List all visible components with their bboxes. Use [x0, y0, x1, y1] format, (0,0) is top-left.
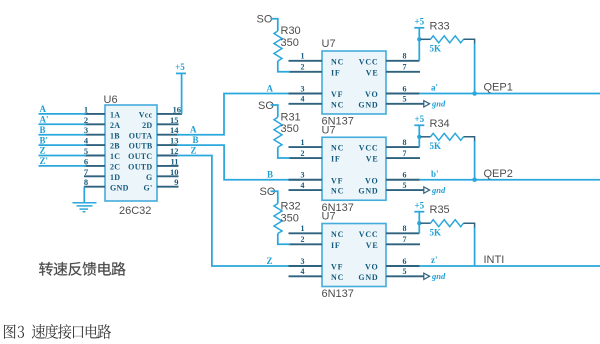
svg-text:1: 1 — [84, 104, 88, 114]
svg-text:2A: 2A — [110, 121, 120, 130]
svg-text:3: 3 — [84, 125, 88, 135]
junction dot QEP2 — [472, 177, 477, 182]
svg-text:QEP2: QEP2 — [484, 168, 513, 180]
svg-text:NC: NC — [331, 100, 344, 109]
U7a pin 8 stub — [386, 52, 419, 61]
svg-text:NC: NC — [331, 187, 344, 196]
svg-text:U7: U7 — [322, 211, 336, 223]
svg-text:INTI: INTI — [484, 254, 505, 266]
U6 pin 13 stub — [157, 136, 179, 146]
svg-text:10: 10 — [170, 167, 179, 177]
U7c reference label — [322, 211, 336, 223]
U6 pin 5 stub — [84, 146, 105, 156]
svg-text:IF: IF — [331, 155, 341, 164]
svg-text:B: B — [267, 170, 273, 180]
wire R35 to output line — [474, 227, 476, 266]
svg-text:VF: VF — [331, 263, 343, 272]
U7b reference label — [322, 124, 336, 136]
svg-text:Vcc: Vcc — [139, 111, 153, 120]
svg-text:2C: 2C — [110, 163, 120, 172]
svg-text:VF: VF — [331, 90, 343, 99]
svg-text:5: 5 — [403, 267, 407, 276]
svg-text:NC: NC — [331, 230, 344, 239]
svg-text:1A: 1A — [110, 111, 120, 120]
svg-text:U7: U7 — [322, 38, 336, 50]
svg-text:1: 1 — [301, 52, 305, 61]
U6 +5 supply — [175, 62, 186, 114]
svg-text:U7: U7 — [322, 124, 336, 136]
U7c pin 4 stub — [289, 267, 323, 276]
U7a reference label — [322, 38, 336, 50]
junction dot QEP1 — [472, 91, 477, 96]
svg-text:B: B — [193, 135, 199, 145]
+5 supply (R33) — [414, 17, 424, 40]
resistor R34 5K — [421, 118, 475, 151]
U6 pin 10 stub — [157, 167, 179, 177]
svg-text:6: 6 — [403, 257, 407, 266]
wire +5 node to U7a pin8 — [418, 39, 420, 61]
U6 pin 1 stub — [84, 104, 105, 114]
svg-text:3: 3 — [301, 171, 305, 180]
U6 pin 2 stub — [84, 115, 105, 125]
svg-text:B': B' — [40, 135, 49, 145]
svg-text:A: A — [40, 104, 47, 114]
svg-text:NC: NC — [331, 144, 344, 153]
U7c pin 8 stub — [386, 224, 419, 233]
svg-text:6: 6 — [84, 156, 88, 166]
svg-text:Z: Z — [191, 146, 197, 156]
svg-text:11: 11 — [170, 156, 178, 166]
svg-text:VE: VE — [366, 241, 379, 250]
svg-text:G: G — [146, 173, 153, 182]
gnd port U7b pin5 — [424, 185, 446, 195]
node SO (R32) — [260, 186, 278, 204]
svg-text:OUTA: OUTA — [129, 131, 153, 140]
U6 value 26C32 — [119, 205, 151, 217]
U6 pin 11 stub — [157, 156, 179, 166]
U7a pin 6 stub — [386, 84, 420, 93]
wire +5 node to U7c pin8 — [418, 223, 420, 233]
wire R33 to output line — [474, 43, 476, 93]
svg-text:A': A' — [40, 115, 49, 125]
U7c pin 3 stub — [289, 257, 323, 266]
U6 reference label — [104, 94, 118, 106]
svg-text:VO: VO — [365, 90, 378, 99]
svg-text:6N137: 6N137 — [322, 288, 354, 300]
svg-text:1D: 1D — [110, 173, 120, 182]
IC U6 26C32 body — [105, 105, 157, 201]
svg-text:2B: 2B — [110, 142, 120, 151]
svg-text:8: 8 — [84, 177, 88, 187]
svg-text:5K: 5K — [430, 141, 442, 151]
svg-text:A: A — [267, 83, 274, 93]
gnd port U7a pin5 — [424, 99, 446, 109]
svg-text:5: 5 — [84, 146, 88, 156]
svg-text:13: 13 — [170, 136, 179, 146]
node SO (R31) — [258, 100, 278, 118]
svg-text:VF: VF — [331, 176, 343, 185]
U7b value 6N137 — [322, 202, 354, 214]
svg-text:1: 1 — [301, 138, 305, 147]
U7c value 6N137 — [322, 288, 354, 300]
U6 pin 15 stub — [157, 115, 179, 125]
U7b pin 5 stub — [386, 181, 424, 190]
U6 pin 7 stub — [84, 167, 105, 177]
svg-text:R33: R33 — [430, 20, 450, 32]
svg-text:4: 4 — [84, 136, 89, 146]
U7a pin 4 stub — [289, 95, 323, 104]
input wire B — [39, 125, 87, 135]
U7b pin 2 stub — [289, 149, 323, 158]
U7c pin 1 stub — [289, 224, 323, 233]
U6 pin 3 stub — [84, 125, 105, 135]
output line INTI — [419, 254, 600, 266]
svg-text:8: 8 — [403, 138, 407, 147]
svg-text:OUTB: OUTB — [129, 142, 153, 151]
svg-text:R31: R31 — [281, 111, 301, 123]
svg-text:350: 350 — [281, 37, 299, 49]
svg-text:gnd: gnd — [431, 99, 446, 109]
node SO (R30) — [257, 14, 278, 32]
U6 pin 12 stub — [157, 146, 179, 156]
optocoupler U7a 6N137 body — [322, 51, 386, 114]
svg-text:8: 8 — [403, 52, 407, 61]
U7c pin 6 stub — [386, 257, 420, 266]
svg-text:Z': Z' — [40, 156, 49, 166]
svg-text:B: B — [40, 125, 46, 135]
U7a value 6N137 — [322, 116, 354, 128]
wire B from U6 pin13 to U7b pin3 — [177, 135, 300, 180]
svg-text:a': a' — [431, 83, 438, 93]
svg-text:2D: 2D — [142, 121, 152, 130]
svg-text:7: 7 — [84, 167, 89, 177]
wire +5 node to U7b pin8 — [418, 137, 420, 147]
svg-text:350: 350 — [281, 212, 299, 224]
svg-text:VE: VE — [366, 155, 379, 164]
svg-text:7: 7 — [403, 149, 407, 158]
input wire A' — [39, 115, 87, 125]
svg-text:+5: +5 — [175, 62, 185, 72]
svg-text:7: 7 — [403, 63, 407, 72]
U6 pin 6 stub — [84, 156, 105, 166]
svg-text:NC: NC — [331, 57, 344, 66]
resistor R30 350 — [274, 25, 301, 72]
svg-text:OUTC: OUTC — [128, 152, 152, 161]
svg-text:GND: GND — [358, 187, 378, 196]
U7a pin 5 stub — [386, 95, 424, 104]
svg-text:5K: 5K — [430, 228, 442, 238]
svg-text:4: 4 — [301, 95, 305, 104]
svg-text:15: 15 — [170, 115, 179, 125]
svg-text:26C32: 26C32 — [119, 205, 151, 217]
svg-text:R34: R34 — [430, 118, 450, 130]
U6 pin 9 stub — [157, 177, 179, 187]
svg-text:R35: R35 — [430, 204, 450, 216]
svg-text:A: A — [190, 125, 197, 135]
U7b pin 3 stub — [289, 171, 323, 180]
U7b pin 7 stub — [386, 149, 420, 158]
svg-text:Z: Z — [267, 256, 273, 266]
svg-text:3: 3 — [301, 257, 305, 266]
junction dot R33 top — [417, 37, 421, 41]
resistor R33 5K — [421, 20, 475, 53]
svg-text:gnd: gnd — [431, 271, 446, 281]
svg-text:1B: 1B — [110, 131, 120, 140]
input wire Z' — [39, 156, 87, 166]
svg-text:OUTD: OUTD — [128, 163, 152, 172]
U6 pin 16 stub — [157, 104, 182, 114]
svg-text:GND: GND — [358, 273, 378, 282]
svg-text:b': b' — [431, 169, 439, 179]
input wire Z — [39, 146, 87, 156]
resistor R35 5K — [421, 204, 475, 237]
svg-text:IF: IF — [331, 68, 341, 77]
input wire B' — [39, 135, 87, 145]
junction dot R35 top — [417, 221, 421, 225]
wire A from U6 pin14 to U7a pin3 — [177, 83, 300, 134]
svg-text:5: 5 — [403, 95, 407, 104]
svg-text:R32: R32 — [281, 201, 301, 213]
input wire A — [39, 104, 87, 114]
U7a pin 1 stub — [289, 52, 323, 61]
text speed feedback circuit — [39, 262, 125, 276]
output line QEP2 — [419, 168, 600, 180]
svg-text:NC: NC — [331, 273, 344, 282]
svg-text:+5: +5 — [414, 114, 424, 124]
svg-text:VO: VO — [365, 263, 378, 272]
optocoupler U7b 6N137 body — [322, 137, 386, 200]
U7a pin 2 stub — [289, 63, 323, 72]
svg-text:+5: +5 — [414, 201, 424, 211]
resistor R31 350 — [274, 111, 301, 158]
svg-text:4: 4 — [301, 181, 305, 190]
U7b pin 6 stub — [386, 171, 420, 180]
U6 pin 14 stub — [157, 125, 179, 135]
svg-text:Z: Z — [40, 146, 46, 156]
U7c pin 7 stub — [386, 235, 420, 244]
svg-text:2: 2 — [301, 63, 305, 72]
+5 supply (R34) — [414, 114, 424, 137]
svg-text:+5: +5 — [414, 17, 424, 27]
gnd port U7c pin5 — [424, 271, 446, 281]
output line QEP1 — [419, 82, 600, 94]
svg-text:R30: R30 — [281, 25, 301, 37]
svg-text:VO: VO — [365, 176, 378, 185]
U7c pin 2 stub — [289, 235, 323, 244]
svg-text:gnd: gnd — [431, 185, 446, 195]
svg-text:2: 2 — [301, 235, 305, 244]
optocoupler U7c 6N137 body — [322, 224, 386, 287]
U7b pin 4 stub — [289, 181, 323, 190]
U7a pin 7 stub — [386, 63, 420, 72]
U7c pin 5 stub — [386, 267, 424, 276]
svg-text:6: 6 — [403, 171, 407, 180]
svg-text:12: 12 — [170, 146, 179, 156]
U6 pin 4 stub — [84, 136, 105, 146]
svg-text:8: 8 — [403, 224, 407, 233]
U7a pin 3 stub — [289, 84, 323, 93]
U6 pin 8 stub — [84, 177, 105, 187]
+5 supply (R35) — [414, 201, 424, 224]
wire Z from U6 pin12 to U7c pin3 — [177, 146, 300, 267]
U7b pin 8 stub — [386, 138, 419, 147]
svg-text:GND: GND — [358, 100, 378, 109]
svg-text:z': z' — [431, 255, 438, 265]
svg-text:VCC: VCC — [359, 144, 379, 153]
svg-text:14: 14 — [170, 125, 179, 135]
wire R34 to output line — [474, 141, 476, 180]
svg-text:4: 4 — [301, 267, 305, 276]
U7b pin 1 stub — [289, 138, 323, 147]
svg-text:QEP1: QEP1 — [484, 82, 513, 94]
svg-text:IF: IF — [331, 241, 341, 250]
svg-text:U6: U6 — [104, 94, 118, 106]
svg-text:3: 3 — [301, 84, 305, 93]
svg-text:350: 350 — [281, 123, 299, 135]
svg-text:VCC: VCC — [359, 57, 379, 66]
svg-text:5: 5 — [403, 181, 407, 190]
svg-text:1: 1 — [301, 224, 305, 233]
svg-text:5K: 5K — [430, 44, 442, 54]
svg-text:SO: SO — [257, 14, 273, 26]
svg-text:6: 6 — [403, 84, 407, 93]
svg-text:16: 16 — [173, 104, 182, 114]
svg-text:G': G' — [143, 183, 152, 192]
svg-text:7: 7 — [403, 235, 407, 244]
svg-text:9: 9 — [174, 177, 178, 187]
svg-text:2: 2 — [84, 115, 88, 125]
svg-text:GND: GND — [110, 183, 129, 192]
svg-text:VCC: VCC — [359, 230, 379, 239]
svg-text:VE: VE — [366, 68, 379, 77]
junction dot R34 top — [417, 135, 421, 139]
caption fig3 speed interface circuit — [4, 324, 111, 339]
resistor R32 350 — [274, 201, 301, 245]
svg-text:1C: 1C — [110, 152, 120, 161]
U6 ground symbol — [73, 187, 97, 212]
svg-text:2: 2 — [301, 149, 305, 158]
